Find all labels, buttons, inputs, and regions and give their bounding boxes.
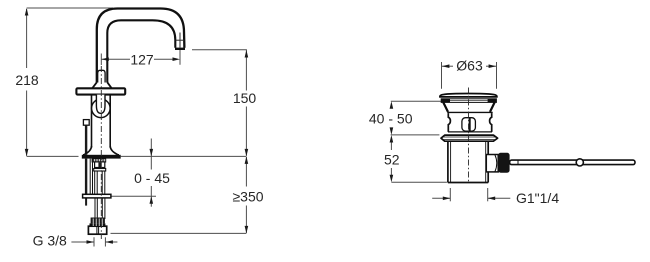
svg-text:0 - 45: 0 - 45: [134, 170, 170, 186]
svg-text:≥350: ≥350: [232, 189, 263, 205]
svg-text:Ø63: Ø63: [456, 58, 483, 74]
svg-text:G1"1/4: G1"1/4: [516, 190, 559, 206]
svg-text:127: 127: [130, 51, 154, 67]
svg-text:218: 218: [15, 72, 39, 88]
svg-text:40 - 50: 40 - 50: [369, 110, 413, 126]
svg-text:G 3/8: G 3/8: [33, 233, 67, 249]
svg-text:150: 150: [233, 90, 257, 106]
svg-text:52: 52: [384, 151, 400, 167]
